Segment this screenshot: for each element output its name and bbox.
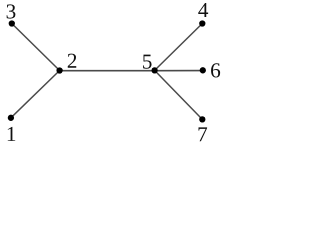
label 1 — [8, 127, 15, 141]
label 6 — [211, 63, 220, 77]
node 5 vertex dot — [151, 67, 157, 73]
label 7 — [199, 127, 208, 141]
wire edge 5-7 — [155, 70, 203, 119]
wire edge 5-4 — [155, 24, 203, 71]
node 1 vertex dot — [8, 115, 14, 121]
node 2 vertex dot — [56, 67, 62, 73]
wire edge 2-5 — [60, 70, 155, 72]
wire edge 5-6 — [155, 70, 203, 72]
label 5 — [143, 55, 152, 69]
wire edge 3-2 — [12, 24, 60, 71]
label 3 — [7, 4, 16, 18]
node 4 vertex dot — [199, 20, 205, 26]
node 7 vertex dot — [199, 116, 205, 122]
node 6 vertex dot — [200, 67, 206, 73]
wire edge 1-2 — [11, 71, 60, 118]
label 2 — [68, 54, 76, 68]
label 4 — [198, 3, 208, 17]
node 3 vertex dot — [9, 20, 15, 26]
